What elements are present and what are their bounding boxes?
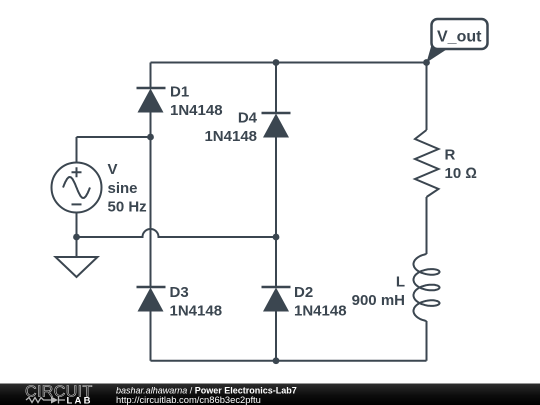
logo zigzag diode [26,397,65,404]
svg-text:1N4148: 1N4148 [170,303,223,320]
diode D2 [262,287,291,312]
svg-text:D3: D3 [170,284,189,301]
svg-text:1N4148: 1N4148 [204,128,257,145]
node dot top D4 [273,59,280,66]
diode D1 [137,88,166,113]
wire ground stub [76,237,78,257]
diode D4 [262,113,291,138]
svg-text:D2: D2 [294,284,313,301]
svg-text:sine: sine [108,180,138,197]
svg-text:1N4148: 1N4148 [294,303,347,320]
svg-text:1N4148: 1N4148 [170,102,223,119]
node dot V_out [423,59,430,66]
wire source top [77,137,151,163]
svg-text:LAB: LAB [67,395,93,405]
node dot source-D1 [147,134,154,141]
wire right branch [426,63,428,361]
node dot mid-D4D2 [273,234,280,241]
wire source bottom [76,213,78,238]
wire bottom rail [151,360,427,362]
inductor L [414,254,440,321]
svg-text:V_out: V_out [437,29,482,46]
svg-text:http://circuitlab.com/cn86b3ec: http://circuitlab.com/cn86b3ec2pftu [116,394,261,405]
wire middle with hop [77,229,277,237]
svg-text:D4: D4 [238,110,258,127]
svg-text:50 Hz: 50 Hz [108,199,147,216]
node flag V_out [427,19,488,63]
voltage source V [52,163,102,213]
ground [56,257,98,277]
node dot source-gnd [73,234,80,241]
wire middle branch [275,63,277,361]
svg-text:R: R [445,147,456,164]
node dot bottom-D2 [273,357,280,364]
wire left branch [150,63,152,361]
svg-text:V: V [108,161,118,178]
wire top rail [151,62,427,64]
svg-text:D1: D1 [170,84,189,101]
diode D3 [137,287,166,312]
svg-text:900 mH: 900 mH [352,292,405,309]
svg-text:L: L [396,274,405,291]
resistor R [415,130,439,197]
svg-text:10 Ω: 10 Ω [445,165,477,182]
